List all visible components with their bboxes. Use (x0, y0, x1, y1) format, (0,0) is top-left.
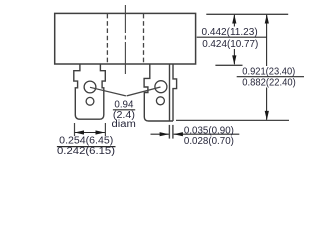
svg-text:0.882(22.40): 0.882(22.40) (242, 77, 295, 88)
svg-text:0.94: 0.94 (114, 99, 133, 110)
svg-text:0.254(6.45): 0.254(6.45) (59, 135, 113, 146)
svg-text:0.424(10.77): 0.424(10.77) (202, 39, 258, 50)
svg-text:0.442(11.23): 0.442(11.23) (202, 27, 258, 38)
svg-text:0.035(0.90): 0.035(0.90) (184, 126, 234, 137)
svg-text:diam: diam (112, 119, 136, 130)
svg-text:0.028(0.70): 0.028(0.70) (184, 136, 234, 147)
svg-text:0.921(23.40): 0.921(23.40) (242, 67, 295, 78)
svg-text:0.242(6.15): 0.242(6.15) (57, 146, 115, 157)
